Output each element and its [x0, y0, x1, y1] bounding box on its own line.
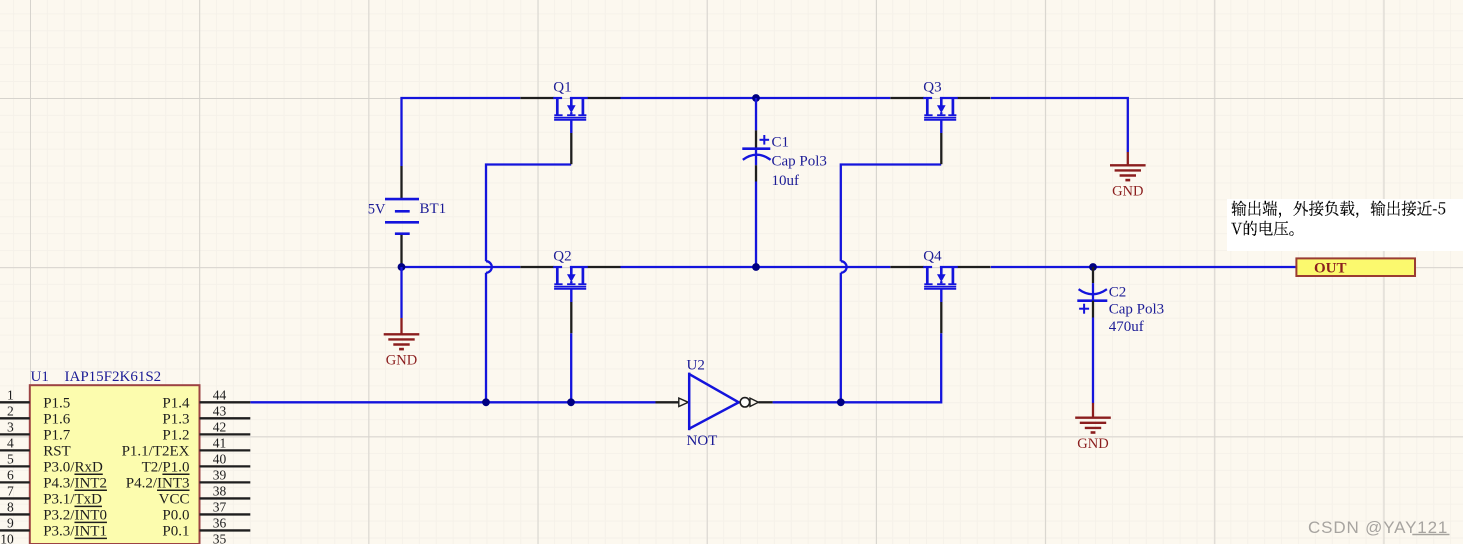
svg-text:Q4: Q4	[923, 249, 942, 265]
svg-text:38: 38	[213, 483, 227, 498]
svg-text:470uf: 470uf	[1109, 319, 1144, 335]
svg-text:2: 2	[7, 403, 14, 418]
svg-text:P0.0: P0.0	[162, 508, 189, 524]
svg-text:C2: C2	[1109, 284, 1127, 300]
svg-text:3: 3	[7, 419, 14, 434]
svg-text:5: 5	[7, 451, 14, 466]
svg-text:IAP15F2K61S2: IAP15F2K61S2	[65, 369, 162, 385]
svg-text:U1: U1	[31, 369, 49, 385]
svg-text:42: 42	[213, 419, 227, 434]
svg-text:Q2: Q2	[553, 249, 571, 265]
svg-text:Q3: Q3	[923, 80, 941, 96]
svg-text:RST: RST	[43, 444, 71, 460]
svg-text:U2: U2	[687, 358, 705, 374]
svg-text:8: 8	[7, 499, 14, 514]
svg-text:P1.2: P1.2	[162, 428, 189, 444]
svg-text:Cap Pol3: Cap Pol3	[772, 154, 827, 170]
svg-text:10: 10	[0, 531, 14, 544]
svg-text:P3.3/INT1: P3.3/INT1	[43, 524, 107, 540]
svg-text:10uf: 10uf	[772, 173, 800, 189]
svg-text:5V: 5V	[368, 202, 386, 218]
svg-text:P1.5: P1.5	[43, 396, 70, 412]
svg-text:P0.1: P0.1	[162, 524, 189, 540]
svg-text:7: 7	[7, 483, 14, 498]
svg-text:P1.4: P1.4	[162, 396, 190, 412]
svg-text:GND: GND	[386, 353, 417, 369]
svg-text:P1.7: P1.7	[43, 428, 71, 444]
svg-text:Q1: Q1	[553, 80, 571, 96]
svg-text:Cap Pol3: Cap Pol3	[1109, 301, 1164, 317]
svg-text:44: 44	[213, 387, 227, 402]
svg-text:VCC: VCC	[159, 492, 190, 508]
svg-text:P1.6: P1.6	[43, 412, 71, 428]
svg-text:6: 6	[7, 467, 14, 482]
svg-text:36: 36	[213, 515, 227, 530]
svg-text:43: 43	[213, 403, 227, 418]
svg-text:9: 9	[7, 515, 14, 530]
svg-text:BT1: BT1	[420, 201, 447, 217]
svg-text:P3.1/TxD: P3.1/TxD	[43, 492, 102, 508]
svg-text:41: 41	[213, 435, 227, 450]
svg-text:OUT: OUT	[1314, 260, 1347, 276]
svg-text:39: 39	[213, 467, 227, 482]
svg-text:37: 37	[213, 499, 227, 514]
svg-text:P1.1/T2EX: P1.1/T2EX	[122, 444, 190, 460]
svg-text:C1: C1	[772, 135, 790, 151]
svg-text:4: 4	[7, 435, 14, 450]
svg-text:GND: GND	[1112, 184, 1143, 200]
svg-text:NOT: NOT	[687, 433, 718, 449]
svg-text:35: 35	[213, 531, 227, 544]
svg-text:P3.0/RxD: P3.0/RxD	[43, 460, 103, 476]
svg-text:GND: GND	[1077, 436, 1108, 452]
svg-text:P4.3/INT2: P4.3/INT2	[43, 476, 107, 492]
svg-text:P1.3: P1.3	[162, 412, 189, 428]
svg-text:P4.2/INT3: P4.2/INT3	[126, 476, 190, 492]
svg-text:T2/P1.0: T2/P1.0	[142, 460, 190, 476]
svg-text:1: 1	[7, 387, 14, 402]
svg-text:P3.2/INT0: P3.2/INT0	[43, 508, 107, 524]
svg-text:40: 40	[213, 451, 227, 466]
